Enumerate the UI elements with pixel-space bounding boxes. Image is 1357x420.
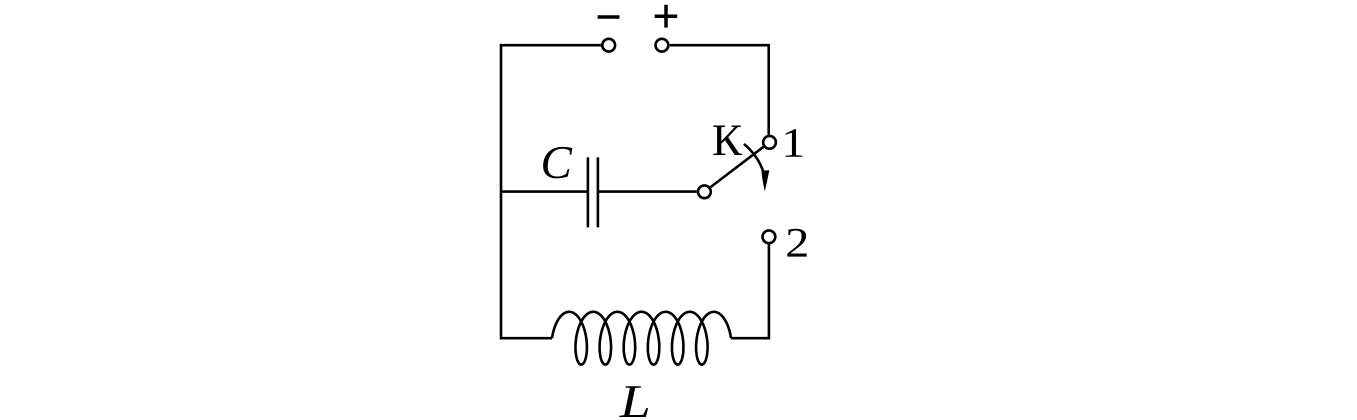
label C: [543, 147, 572, 179]
wire: [598, 190, 697, 193]
switch K pivot: [698, 185, 711, 198]
minus sign: [598, 15, 620, 19]
wire: [501, 190, 588, 193]
node 1: [763, 136, 776, 149]
battery negative terminal: [602, 39, 615, 52]
capacitor C: [588, 157, 598, 227]
wire: [731, 245, 769, 339]
wire: [670, 45, 769, 134]
plus sign: [655, 5, 678, 28]
battery positive terminal: [656, 39, 669, 52]
label L: [619, 386, 648, 417]
switch throw arrow arc: [744, 144, 763, 171]
switch K arm: [711, 147, 764, 187]
label 1: [785, 129, 802, 157]
label 2: [787, 229, 806, 257]
wire: [501, 45, 601, 338]
label K: [713, 126, 742, 155]
inductor L: [552, 312, 731, 365]
node 2: [763, 230, 776, 243]
switch throw arrowhead: [761, 170, 769, 191]
